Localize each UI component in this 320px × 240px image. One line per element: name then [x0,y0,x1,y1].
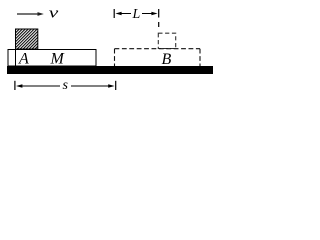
svg-text:A: A [18,51,29,68]
svg-text:B: B [162,51,172,68]
svg-text:s: s [63,78,69,93]
svg-text:v: v [49,6,59,22]
svg-text:L: L [132,7,141,22]
svg-text:M: M [50,51,66,68]
